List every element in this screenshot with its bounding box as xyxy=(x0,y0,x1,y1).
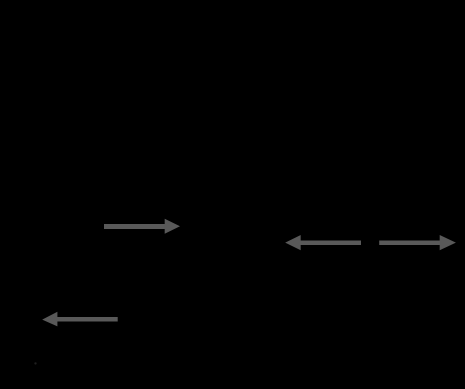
arrow B left half (double arrow, points left) xyxy=(285,235,361,250)
arrow A right (forward) xyxy=(104,219,180,234)
arrow B right half (double arrow, points right) xyxy=(379,235,456,250)
arrow C left (reverse) xyxy=(42,312,118,327)
faint dot xyxy=(34,362,36,364)
